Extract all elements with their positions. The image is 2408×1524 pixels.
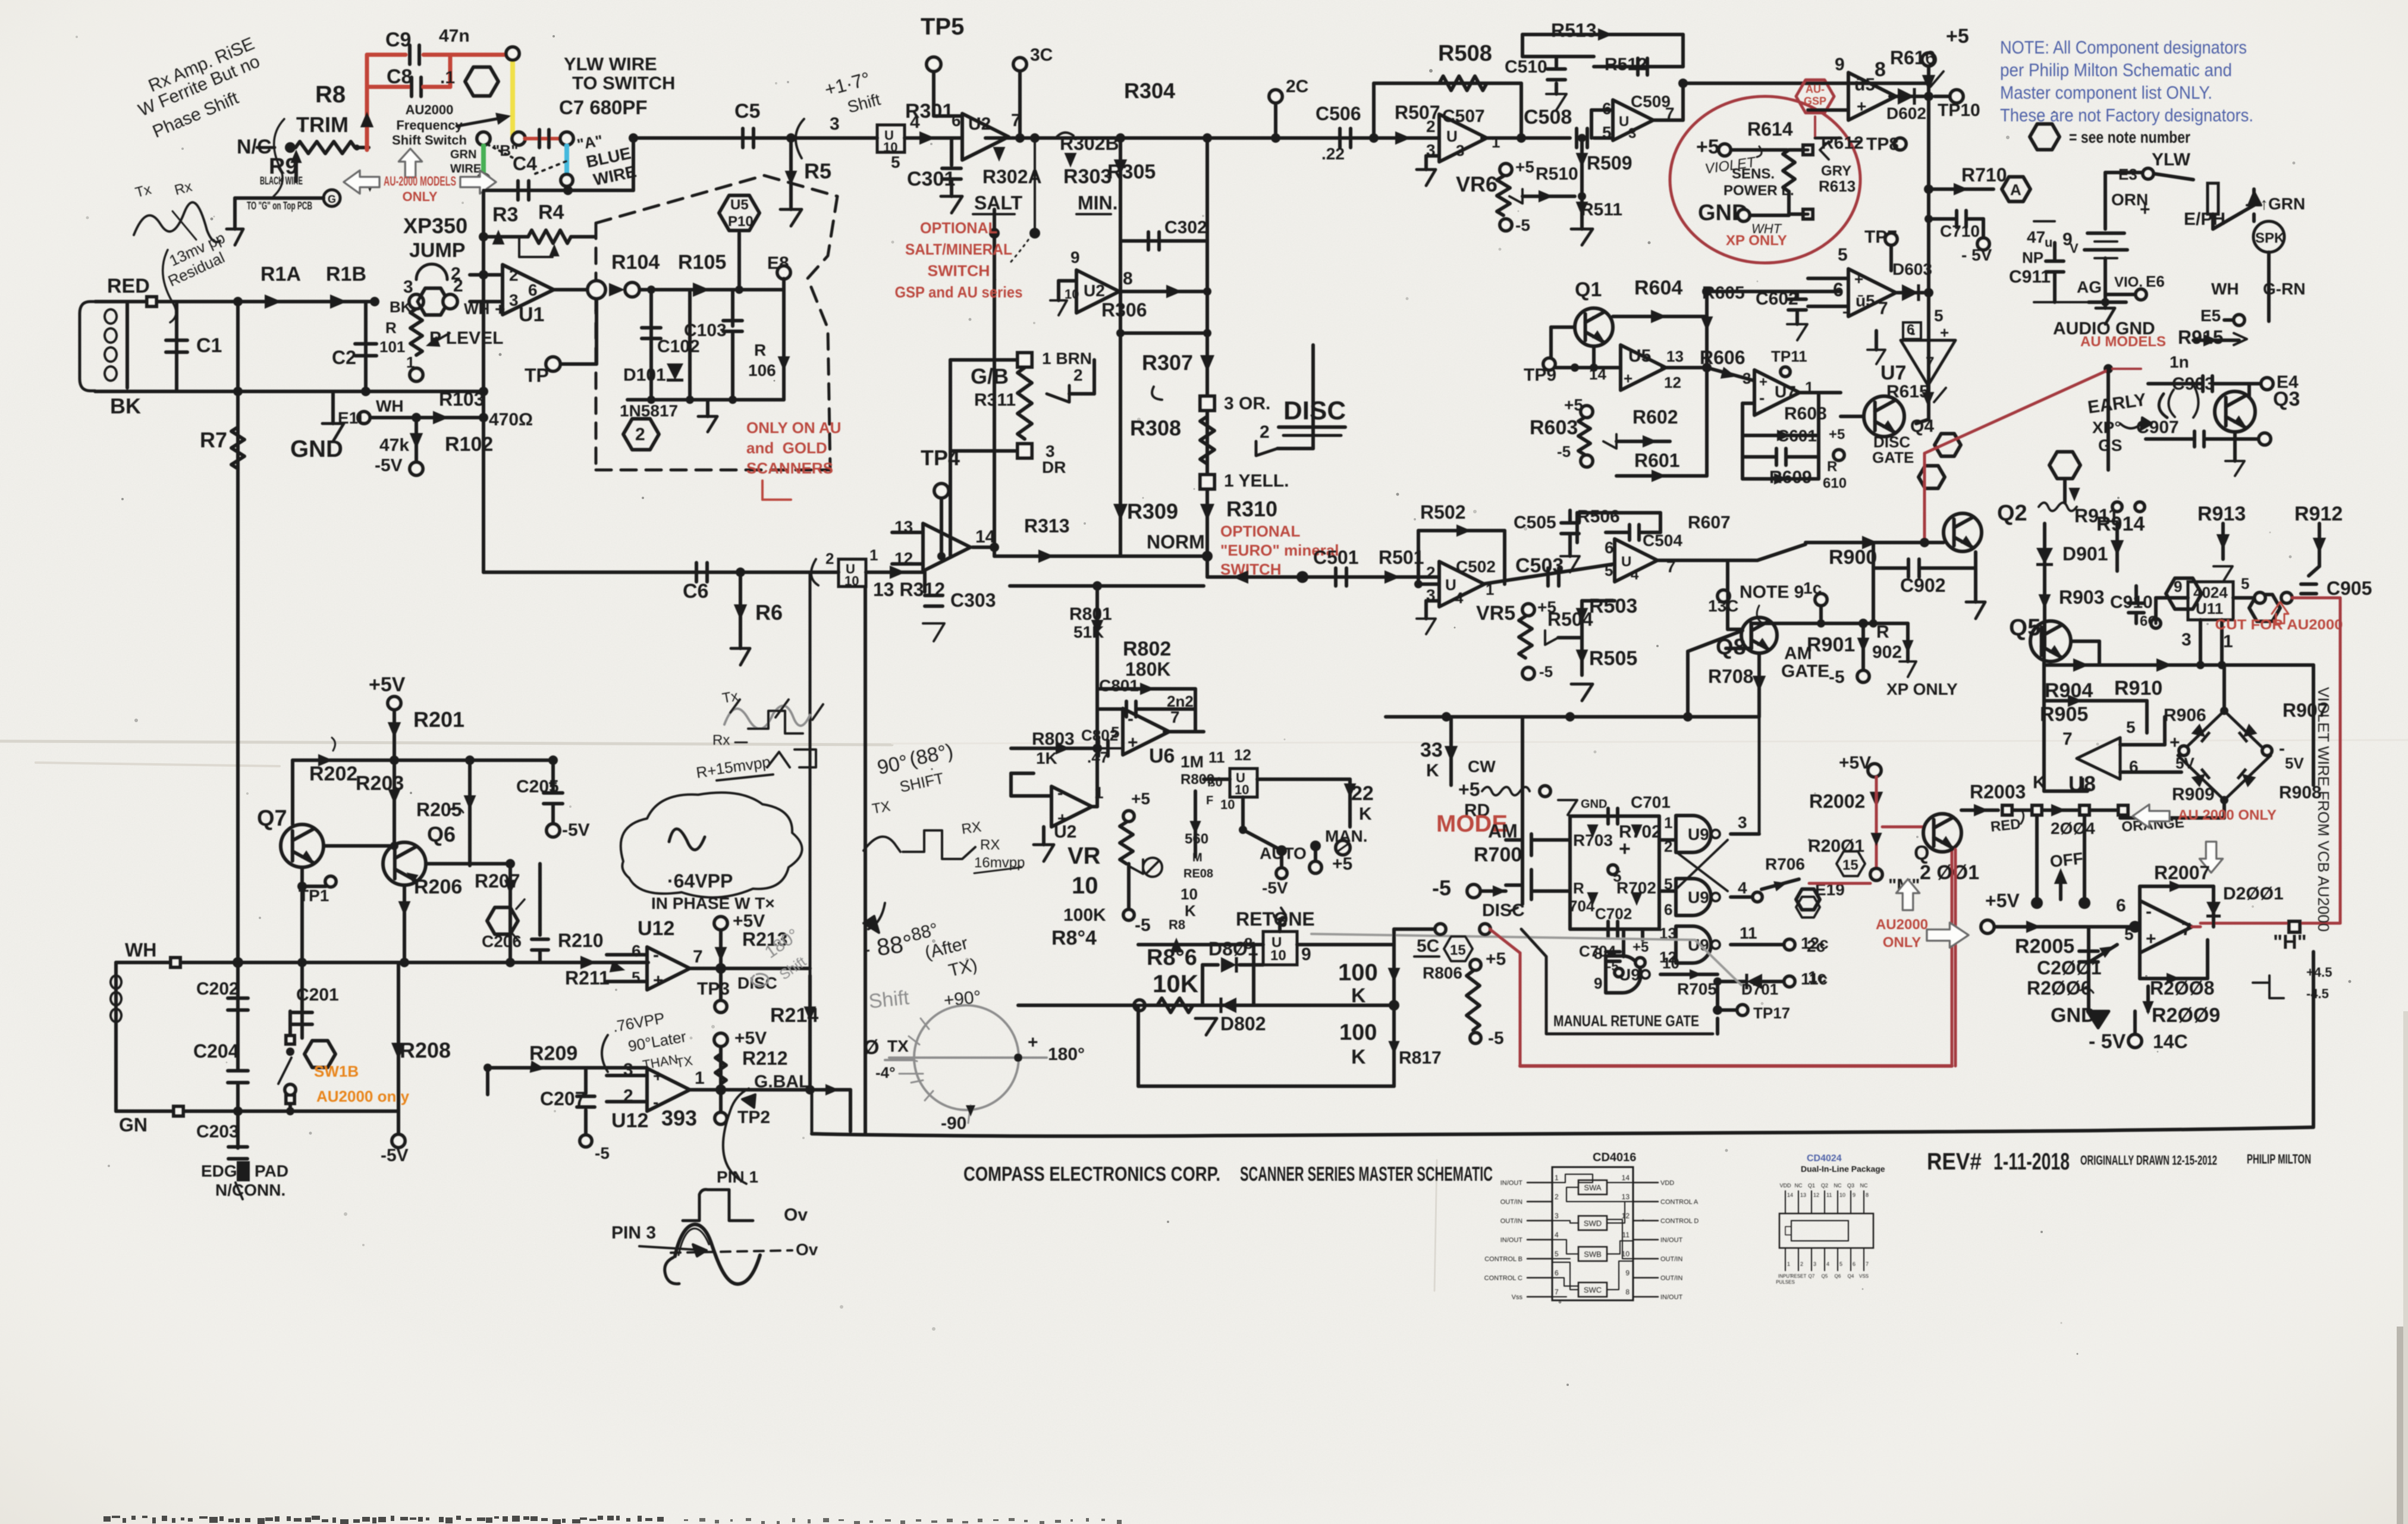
svg-text:R612: R612 — [1821, 133, 1864, 153]
svg-text:6: 6 — [1664, 901, 1672, 918]
svg-text:Shift: Shift — [868, 986, 911, 1013]
svg-text:7: 7 — [1555, 1288, 1559, 1296]
svg-text:R508: R508 — [1438, 41, 1492, 66]
svg-text:6: 6 — [1833, 279, 1844, 300]
svg-text:2: 2 — [1426, 117, 1436, 136]
svg-text:-: - — [1128, 709, 1134, 729]
svg-text:C503: C503 — [1515, 554, 1564, 577]
svg-text:-: - — [1910, 324, 1916, 341]
svg-text:3: 3 — [509, 291, 519, 309]
svg-text:Q7: Q7 — [1809, 1274, 1815, 1279]
svg-text:U7: U7 — [1880, 362, 1906, 384]
svg-text:R602: R602 — [1632, 406, 1678, 428]
svg-text:R614: R614 — [1747, 118, 1793, 140]
svg-text:VR: VR — [1068, 843, 1101, 869]
svg-text:2: 2 — [1426, 563, 1436, 582]
svg-text:C103: C103 — [684, 321, 727, 340]
svg-text:+5V: +5V — [369, 673, 406, 696]
svg-text:BK: BK — [390, 298, 412, 316]
svg-text:R513: R513 — [1551, 20, 1597, 41]
svg-text:U7: U7 — [1775, 382, 1796, 401]
svg-text:-5: -5 — [1829, 667, 1845, 687]
svg-text:U2: U2 — [1054, 822, 1076, 842]
svg-text:OUT/IN: OUT/IN — [1660, 1275, 1682, 1282]
svg-text:G: G — [328, 193, 336, 205]
svg-text:-5V: -5V — [375, 456, 403, 475]
svg-text:YLW: YLW — [2152, 150, 2191, 170]
svg-text:3 OR.: 3 OR. — [1224, 394, 1270, 413]
svg-text:6: 6 — [1555, 1269, 1559, 1277]
svg-text:13C: 13C — [1708, 597, 1738, 615]
svg-text:-5: -5 — [1557, 443, 1571, 460]
svg-text:CONTROL D: CONTROL D — [1660, 1218, 1699, 1225]
svg-text:3: 3 — [2181, 630, 2192, 650]
svg-text:2C: 2C — [1286, 77, 1308, 96]
svg-text:R2002: R2002 — [1809, 791, 1865, 812]
svg-text:DR: DR — [1042, 458, 1066, 476]
svg-text:Master component list ONLY.: Master component list ONLY. — [2000, 82, 2212, 103]
svg-text:E5: E5 — [2200, 306, 2221, 325]
svg-text:SENS.: SENS. — [1732, 166, 1775, 182]
svg-text:C502: C502 — [1456, 557, 1496, 576]
svg-text:V: V — [2070, 241, 2079, 256]
svg-text:K: K — [1359, 804, 1372, 824]
svg-text:Q6: Q6 — [1835, 1274, 1841, 1279]
svg-text:8: 8 — [1866, 1192, 1869, 1198]
svg-text:3: 3 — [1743, 369, 1751, 387]
svg-text:VR5: VR5 — [1476, 602, 1515, 625]
svg-text:R+: R+ — [695, 761, 718, 782]
svg-text:5: 5 — [1555, 1250, 1559, 1258]
svg-text:-5: -5 — [1515, 216, 1530, 234]
svg-text:10: 10 — [1181, 885, 1198, 903]
svg-text:A: A — [2010, 181, 2021, 199]
svg-text:8: 8 — [1875, 58, 1886, 81]
svg-text:-: - — [1759, 388, 1765, 407]
svg-text:33: 33 — [1420, 739, 1443, 761]
svg-text:TX: TX — [887, 1037, 909, 1055]
svg-text:R616: R616 — [1890, 47, 1936, 68]
svg-text:Q6: Q6 — [427, 822, 456, 846]
svg-text:U2: U2 — [1084, 281, 1105, 300]
svg-text:R708: R708 — [1708, 666, 1754, 687]
svg-text:1c: 1c — [1808, 968, 1826, 986]
svg-text:C204: C204 — [193, 1040, 239, 1062]
svg-text:-4°: -4° — [875, 1064, 896, 1081]
svg-text:+: + — [2140, 200, 2150, 219]
svg-text:2ØØ4: 2ØØ4 — [2051, 819, 2095, 838]
svg-text:7: 7 — [2062, 729, 2073, 749]
svg-text:C911: C911 — [2009, 267, 2051, 287]
svg-text:R2003: R2003 — [1970, 781, 2026, 802]
svg-text:5: 5 — [2241, 575, 2249, 592]
svg-text:-90: -90 — [941, 1114, 966, 1133]
svg-text:XP ONLY: XP ONLY — [1726, 233, 1787, 249]
svg-text:4: 4 — [1738, 879, 1747, 897]
svg-text:R8: R8 — [315, 81, 346, 108]
svg-text:5V: 5V — [2285, 754, 2304, 772]
svg-text:9: 9 — [1070, 248, 1080, 266]
svg-text:5: 5 — [891, 153, 900, 171]
svg-text:+5: +5 — [1946, 25, 1969, 48]
svg-text:YLW WIRE: YLW WIRE — [564, 54, 657, 74]
svg-text:3: 3 — [830, 114, 840, 134]
svg-text:TP4: TP4 — [921, 446, 960, 470]
svg-text:SPK: SPK — [2255, 230, 2285, 246]
svg-text:+: + — [1854, 270, 1863, 288]
svg-text:C508: C508 — [1524, 106, 1572, 128]
svg-text:DISC: DISC — [737, 974, 777, 992]
svg-text:R: R — [754, 341, 766, 359]
svg-text:ORIGINALLY DRAWN 12-15-2012: ORIGINALLY DRAWN 12-15-2012 — [2080, 1153, 2217, 1168]
svg-text:C7 680PF: C7 680PF — [559, 96, 648, 118]
svg-text:-5: -5 — [1135, 915, 1151, 935]
svg-text:R8: R8 — [1169, 917, 1185, 932]
svg-text:14: 14 — [1589, 365, 1606, 383]
svg-text:1: 1 — [869, 546, 878, 564]
svg-text:VDD: VDD — [1779, 1183, 1791, 1189]
svg-text:R302B: R302B — [1060, 133, 1119, 154]
svg-text:RESET: RESET — [1791, 1274, 1807, 1279]
svg-text:WH: WH — [376, 397, 404, 415]
svg-text:8: 8 — [1123, 269, 1133, 289]
svg-text:RED: RED — [107, 275, 150, 297]
svg-text:U12: U12 — [611, 1109, 648, 1132]
svg-text:ONLY: ONLY — [402, 189, 437, 204]
svg-text:13: 13 — [1800, 1192, 1806, 1198]
svg-text:TP9: TP9 — [1524, 365, 1556, 385]
svg-text:N/CONN.: N/CONN. — [215, 1181, 285, 1199]
svg-text:9: 9 — [1853, 1192, 1856, 1198]
svg-text:5: 5 — [1664, 875, 1672, 893]
svg-text:Ø: Ø — [864, 1036, 879, 1059]
svg-text:CW: CW — [1468, 757, 1496, 776]
svg-text:7: 7 — [1878, 299, 1888, 318]
svg-text:9: 9 — [2174, 578, 2182, 595]
svg-text:PIN 1: PIN 1 — [717, 1168, 758, 1186]
svg-text:CONTROL A: CONTROL A — [1660, 1199, 1699, 1206]
svg-text:-: - — [2146, 902, 2152, 921]
svg-text:15: 15 — [1450, 942, 1466, 958]
svg-text:47n: 47n — [439, 26, 470, 46]
svg-text:C702: C702 — [1595, 905, 1632, 923]
svg-text:Ov: Ov — [796, 1240, 818, 1259]
svg-text:R607: R607 — [1688, 513, 1731, 532]
svg-text:12: 12 — [1813, 1192, 1819, 1198]
svg-text:MANUAL RETUNE GATE: MANUAL RETUNE GATE — [1553, 1012, 1699, 1030]
svg-text:47k: 47k — [379, 435, 409, 455]
svg-text:XP350: XP350 — [403, 214, 467, 238]
svg-text:R302A: R302A — [982, 166, 1042, 187]
svg-text:C506: C506 — [1316, 103, 1361, 124]
svg-text:AU 2000 ONLY: AU 2000 ONLY — [2178, 807, 2277, 823]
svg-text:C4: C4 — [513, 153, 537, 174]
svg-text:5V: 5V — [2175, 754, 2194, 772]
svg-text:P10: P10 — [728, 214, 754, 230]
svg-text:4: 4 — [1555, 1231, 1559, 1239]
svg-text:R8°4: R8°4 — [1051, 927, 1097, 949]
svg-text:2: 2 — [453, 276, 463, 296]
svg-text:9: 9 — [1835, 55, 1845, 74]
svg-text:R8°6: R8°6 — [1147, 945, 1197, 970]
svg-text:R802: R802 — [1123, 638, 1171, 660]
svg-text:E1L: E1L — [338, 409, 368, 427]
svg-text:2: 2 — [1664, 838, 1672, 855]
svg-text:+5: +5 — [1332, 854, 1352, 874]
svg-text:AU-2000 MODELS: AU-2000 MODELS — [384, 174, 456, 189]
svg-text:CONTROL C: CONTROL C — [1484, 1275, 1522, 1282]
svg-text:u: u — [2045, 235, 2052, 250]
svg-text:R914: R914 — [2096, 513, 2145, 535]
svg-text:+5: +5 — [1486, 949, 1506, 969]
svg-text:NC: NC — [1795, 1183, 1803, 1189]
svg-text:R613: R613 — [1819, 177, 1856, 195]
svg-text:R308: R308 — [1130, 416, 1181, 440]
svg-text:C206: C206 — [482, 932, 522, 951]
svg-text:R102: R102 — [445, 433, 493, 456]
svg-text:6: 6 — [1853, 1261, 1856, 1267]
svg-text:R506: R506 — [1577, 507, 1620, 526]
svg-text:GATE: GATE — [1781, 661, 1829, 681]
svg-text:-: - — [1057, 783, 1063, 802]
svg-text:R104: R104 — [611, 251, 660, 274]
svg-text:AU2000 only: AU2000 only — [316, 1087, 410, 1105]
svg-text:12: 12 — [1622, 1212, 1630, 1220]
svg-text:PULSES: PULSES — [1776, 1280, 1795, 1285]
svg-text:R705: R705 — [1677, 980, 1717, 998]
svg-text:REV#: REV# — [1927, 1149, 1982, 1175]
svg-text:OPTIONAL: OPTIONAL — [920, 219, 997, 237]
svg-text:2: 2 — [1800, 1261, 1803, 1267]
svg-text:3: 3 — [1738, 813, 1747, 832]
svg-text:F: F — [1206, 794, 1213, 807]
svg-text:K: K — [1351, 1046, 1366, 1068]
svg-text:R503: R503 — [1589, 595, 1637, 617]
svg-text:R: R — [1827, 459, 1837, 475]
svg-text:-: - — [653, 945, 659, 965]
svg-text:+: + — [1128, 733, 1138, 752]
svg-text:3C: 3C — [1030, 45, 1053, 65]
svg-text:D602: D602 — [1886, 104, 1926, 123]
svg-text:R103: R103 — [439, 388, 485, 410]
svg-text:COMPASS ELECTRONICS CORP.: COMPASS ELECTRONICS CORP. — [963, 1163, 1220, 1186]
svg-text:3: 3 — [1628, 126, 1636, 142]
svg-text:TX: TX — [675, 1053, 694, 1071]
svg-text:C8: C8 — [387, 65, 412, 88]
svg-text:C510: C510 — [1505, 57, 1547, 77]
svg-text:TP3: TP3 — [697, 979, 730, 999]
svg-text:1: 1 — [2223, 632, 2233, 651]
svg-text:R806: R806 — [1423, 964, 1462, 982]
svg-text:POWER L.: POWER L. — [1723, 183, 1794, 199]
svg-text:Q5: Q5 — [1822, 1274, 1828, 1279]
svg-text:SALT: SALT — [974, 192, 1023, 214]
svg-text:+5: +5 — [1829, 427, 1845, 443]
svg-text:R505: R505 — [1589, 647, 1637, 670]
svg-text:5: 5 — [1605, 562, 1613, 579]
svg-text:- 5V: - 5V — [1961, 246, 1992, 264]
svg-text:OFF: OFF — [2049, 849, 2084, 871]
svg-text:OUT/IN: OUT/IN — [1500, 1218, 1522, 1225]
svg-text:C509: C509 — [1631, 92, 1671, 111]
svg-text:AU MODELS: AU MODELS — [2080, 334, 2166, 350]
svg-text:+: + — [653, 1067, 663, 1085]
svg-text:2: 2 — [1555, 1193, 1559, 1201]
svg-text:U9: U9 — [1688, 825, 1709, 843]
svg-text:11: 11 — [1208, 748, 1225, 766]
svg-text:G/B: G/B — [971, 364, 1009, 388]
svg-text:10: 10 — [1235, 782, 1249, 797]
svg-text:R3: R3 — [492, 203, 518, 226]
svg-text:1: 1 — [1555, 1174, 1559, 1182]
svg-text:-5: -5 — [1432, 876, 1451, 900]
svg-text:GRY: GRY — [1821, 163, 1851, 179]
svg-text:R803: R803 — [1032, 729, 1075, 749]
svg-text:R502: R502 — [1420, 501, 1466, 523]
svg-text:VIOLET WIRE FROM VCB AU2000: VIOLET WIRE FROM VCB AU2000 — [2315, 687, 2332, 932]
svg-text:RX: RX — [980, 837, 1000, 853]
svg-text:MIN.: MIN. — [1078, 192, 1118, 214]
svg-text:-5: -5 — [595, 1144, 610, 1162]
svg-text:SALT/MINERAL: SALT/MINERAL — [905, 240, 1012, 258]
svg-text:2: 2 — [635, 425, 645, 444]
svg-text:6: 6 — [1605, 538, 1614, 557]
svg-text:9: 9 — [1625, 1269, 1630, 1277]
svg-text:7: 7 — [1866, 1261, 1869, 1267]
svg-text:AG: AG — [2077, 278, 2102, 296]
svg-text:OUT/IN: OUT/IN — [1660, 1256, 1682, 1263]
svg-text:C601: C601 — [1777, 427, 1817, 445]
svg-text:ONLY: ONLY — [1883, 935, 1921, 951]
svg-text:Q3: Q3 — [2273, 388, 2300, 410]
svg-text:TP11: TP11 — [1771, 347, 1807, 365]
svg-text:C710: C710 — [1940, 222, 1980, 240]
svg-text:C203: C203 — [196, 1122, 239, 1142]
svg-text:R6: R6 — [755, 600, 783, 625]
svg-text:Tx: Tx — [721, 688, 739, 707]
svg-text:C6: C6 — [683, 580, 708, 603]
svg-text:C902: C902 — [1900, 575, 1946, 596]
svg-text:R910: R910 — [2114, 677, 2162, 700]
svg-text:IN/OUT: IN/OUT — [1660, 1237, 1683, 1244]
svg-text:RE08: RE08 — [1183, 867, 1213, 880]
svg-text:Shift Switch: Shift Switch — [392, 133, 467, 148]
svg-text:C301: C301 — [907, 168, 955, 190]
svg-text:VR6: VR6 — [1456, 172, 1497, 196]
svg-text:14: 14 — [1622, 1174, 1630, 1182]
svg-text:101: 101 — [379, 338, 405, 356]
svg-text:C202: C202 — [196, 979, 239, 999]
svg-text:R206: R206 — [414, 876, 462, 898]
svg-text:R510: R510 — [1536, 164, 1578, 184]
svg-text:E6: E6 — [2146, 272, 2165, 290]
svg-text:R210: R210 — [558, 930, 604, 951]
svg-text:6: 6 — [952, 111, 961, 130]
svg-text:5: 5 — [2124, 925, 2134, 943]
svg-text:-5: -5 — [1488, 1028, 1504, 1048]
svg-text:R1A: R1A — [260, 263, 301, 286]
svg-text:PAD: PAD — [255, 1162, 288, 1180]
svg-text:Q2: Q2 — [1821, 1183, 1828, 1189]
svg-text:14: 14 — [1787, 1192, 1793, 1198]
svg-text:R913: R913 — [2197, 503, 2246, 525]
svg-text:TP: TP — [525, 365, 549, 386]
svg-text:GSP and AU series: GSP and AU series — [895, 283, 1023, 301]
svg-text:R: R — [1573, 879, 1584, 897]
svg-text:U6: U6 — [1149, 745, 1175, 767]
svg-text:3: 3 — [403, 277, 413, 297]
svg-text:2: 2 — [509, 266, 519, 284]
svg-text:R309: R309 — [1127, 499, 1178, 523]
svg-text:6: 6 — [632, 942, 641, 960]
svg-text:10: 10 — [1220, 797, 1235, 812]
svg-text:TP10: TP10 — [1938, 101, 1980, 120]
svg-text:IN/OUT: IN/OUT — [1660, 1294, 1683, 1301]
svg-text:R905: R905 — [2040, 703, 2088, 726]
svg-text:R817: R817 — [1399, 1048, 1442, 1068]
svg-text:U: U — [1619, 114, 1629, 130]
svg-text:R304: R304 — [1124, 79, 1175, 103]
svg-text:R907: R907 — [2283, 700, 2328, 721]
svg-text:NOTE: All Component designator: NOTE: All Component designators — [2000, 37, 2247, 58]
svg-text:13: 13 — [1666, 347, 1684, 365]
svg-text:R901: R901 — [1807, 634, 1855, 656]
svg-text:SCANNER SERIES MASTER SCHEMATI: SCANNER SERIES MASTER SCHEMATIC — [1240, 1163, 1493, 1186]
svg-text:JUMP: JUMP — [409, 239, 465, 262]
svg-text:+: + — [1759, 374, 1767, 390]
svg-text:C905: C905 — [2327, 578, 2372, 599]
svg-text:GSP: GSP — [1804, 95, 1826, 107]
svg-text:-5: -5 — [1539, 663, 1553, 681]
svg-text:-5V: -5V — [562, 820, 590, 840]
svg-text:U12: U12 — [638, 917, 674, 940]
svg-text:1n: 1n — [2170, 353, 2189, 371]
svg-text:R212: R212 — [742, 1048, 788, 1069]
svg-text:+5: +5 — [1696, 136, 1719, 158]
svg-text:.1: .1 — [440, 68, 455, 87]
svg-text:OPTIONAL: OPTIONAL — [1220, 522, 1300, 540]
svg-text:CD4016: CD4016 — [1593, 1151, 1636, 1164]
svg-text:G-RN: G-RN — [2263, 280, 2306, 298]
svg-text:+5: +5 — [1131, 789, 1150, 808]
svg-text:393: 393 — [661, 1106, 697, 1130]
svg-text:+: + — [653, 971, 664, 990]
svg-text:C302: C302 — [1164, 218, 1207, 237]
svg-text:C9: C9 — [385, 29, 411, 51]
svg-text:47: 47 — [2027, 228, 2045, 246]
svg-text:R915: R915 — [2178, 327, 2224, 348]
svg-text:SWA: SWA — [1584, 1183, 1601, 1192]
svg-text:Q4: Q4 — [1848, 1274, 1854, 1279]
svg-text:"H": "H" — [2273, 931, 2307, 954]
svg-text:-: - — [653, 1093, 658, 1111]
svg-text:R912: R912 — [2294, 503, 2343, 525]
svg-text:7: 7 — [1170, 708, 1180, 726]
svg-text:R: R — [1876, 622, 1889, 642]
svg-text:Vss: Vss — [1512, 1294, 1523, 1301]
svg-text:TP1: TP1 — [299, 886, 329, 905]
svg-text:R900: R900 — [1829, 546, 1877, 569]
svg-text:9: 9 — [1594, 974, 1602, 992]
svg-text:R305: R305 — [1107, 161, 1156, 183]
svg-text:R7: R7 — [200, 428, 227, 452]
svg-text:12: 12 — [1664, 374, 1681, 391]
svg-text:4: 4 — [1631, 567, 1639, 583]
svg-text:610: 610 — [1823, 475, 1847, 491]
svg-text:R306: R306 — [1101, 299, 1147, 321]
svg-text:R4: R4 — [538, 201, 564, 224]
svg-text:SWD: SWD — [1584, 1219, 1602, 1228]
